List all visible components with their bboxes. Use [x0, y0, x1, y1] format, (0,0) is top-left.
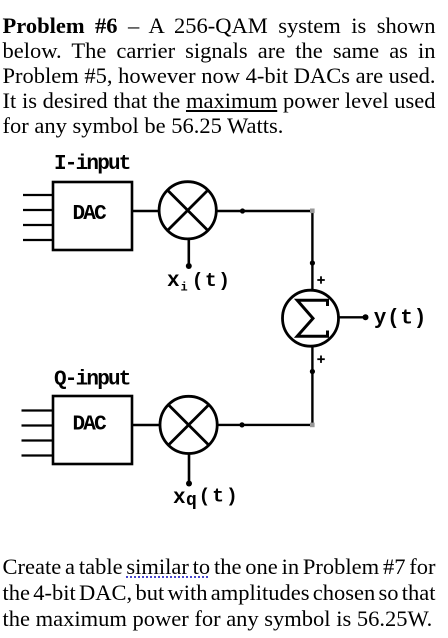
- carrier terminal dot (Q): [186, 481, 192, 487]
- carrier terminal dot (I): [186, 263, 192, 269]
- junction dot on Q wire: [239, 422, 244, 427]
- svg-text:i: i: [181, 281, 188, 295]
- svg-text:Q-input: Q-input: [54, 369, 130, 392]
- junction dot above summer: [310, 260, 315, 265]
- output wire: [339, 316, 364, 318]
- svg-text:x: x: [167, 270, 180, 293]
- wire DAC to mixer M2: [132, 424, 159, 426]
- carrier stub below M1: [188, 240, 191, 266]
- svg-text:I-input: I-input: [54, 153, 130, 176]
- Q input bus lines: [22, 411, 53, 456]
- corner node (gray) bottom: [310, 423, 315, 428]
- DAC block U1: [53, 182, 132, 250]
- wire DAC to mixer M1: [132, 210, 158, 212]
- svg-text:DAC: DAC: [73, 413, 108, 436]
- top paragraph: [3, 13, 436, 38]
- I input bus lines: [23, 195, 52, 240]
- svg-text:q: q: [186, 491, 197, 511]
- wire summer down to corner: [311, 346, 313, 425]
- label xi(t): [167, 270, 231, 295]
- bottom paragraph: [3, 554, 436, 579]
- svg-text:(t): (t): [199, 485, 240, 507]
- mixer M2 (multiplier): [160, 396, 217, 453]
- svg-text:DAC: DAC: [73, 203, 108, 226]
- sigma symbol: [297, 300, 327, 336]
- svg-text:x: x: [173, 487, 186, 510]
- junction dot on I wire: [240, 208, 245, 213]
- wire corner down to summer: [311, 211, 313, 290]
- label xq(t): [173, 485, 240, 511]
- svg-text:y(t): y(t): [374, 308, 427, 331]
- wire M2 to corner node: [217, 424, 312, 426]
- wire M1 to corner node: [216, 210, 312, 212]
- plus sign top input: [317, 276, 325, 283]
- summer U3: [283, 290, 339, 346]
- carrier stub below M2: [188, 454, 191, 482]
- junction dot below summer: [310, 369, 315, 374]
- corner node (gray) top: [310, 209, 315, 214]
- mixer M1 (multiplier): [159, 182, 216, 239]
- output terminal dot: [363, 314, 369, 320]
- plus sign bottom input: [317, 356, 325, 363]
- svg-text:(t): (t): [192, 270, 232, 292]
- DAC block U2: [53, 396, 132, 464]
